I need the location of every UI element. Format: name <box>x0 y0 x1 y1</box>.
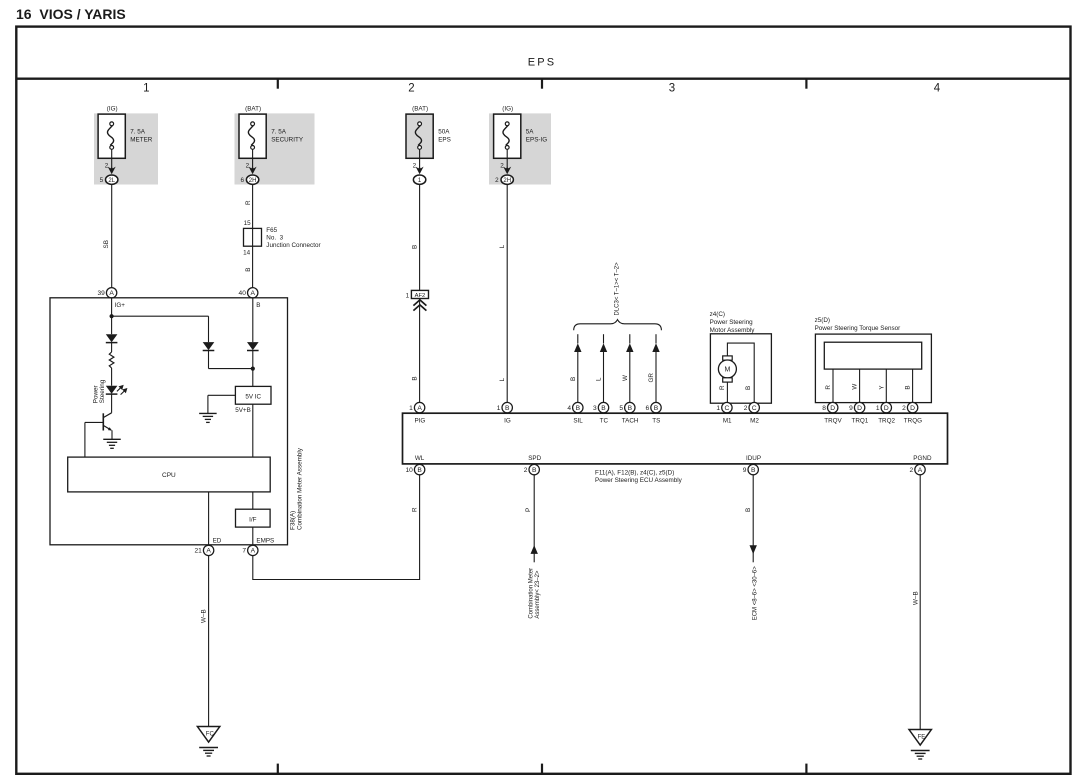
fuse F1 METER: gray highlight panel <box>94 113 158 184</box>
column tick top 2-3 <box>541 79 543 89</box>
wire resistor to LED <box>111 368 113 386</box>
svg-text:14: 14 <box>243 250 251 257</box>
svg-text:Power Steering: Power Steering <box>710 319 754 326</box>
regulator 5V IC box <box>235 386 271 404</box>
svg-text:W–B: W–B <box>200 609 207 623</box>
wire 5V IC to CPU <box>252 404 254 457</box>
arrow up TACH <box>626 343 633 352</box>
svg-text:B: B <box>654 405 659 412</box>
svg-text:R: R <box>411 507 418 512</box>
svg-text:W: W <box>622 375 629 381</box>
svg-text:2L: 2L <box>108 178 115 184</box>
svg-text:WL: WL <box>415 455 425 462</box>
meter pin 39 (A) <box>106 288 116 298</box>
ECU pin 2(C) M2 <box>749 402 759 412</box>
node junction dot 5V <box>251 367 255 371</box>
torque sensor element <box>824 342 921 369</box>
svg-text:I/F: I/F <box>249 516 256 523</box>
column tick bottom 1-2 <box>277 764 279 774</box>
junction connector F65 No.3 <box>244 228 262 246</box>
motor M1 brush <box>723 356 733 360</box>
svg-text:B: B <box>532 467 537 474</box>
wire ED down <box>208 556 210 727</box>
svg-text:5: 5 <box>619 405 623 412</box>
svg-text:8: 8 <box>822 405 826 412</box>
svg-text:A: A <box>918 467 923 474</box>
svg-text:1: 1 <box>876 405 880 412</box>
svg-text:TRQV: TRQV <box>824 418 842 425</box>
fuse F4 EPS-IG: connector arrow <box>503 166 511 174</box>
diode D2 <box>203 342 215 350</box>
svg-text:3: 3 <box>593 405 597 412</box>
svg-text:D: D <box>910 405 915 412</box>
svg-text:B: B <box>905 385 912 389</box>
svg-text:L: L <box>499 244 506 248</box>
wire TACH to pin <box>629 352 631 402</box>
svg-text:2: 2 <box>105 162 109 169</box>
svg-text:GR: GR <box>648 373 655 383</box>
svg-text:PGND: PGND <box>913 455 932 462</box>
svg-text:B: B <box>576 405 581 412</box>
svg-text:39: 39 <box>97 290 105 297</box>
node junction dot IG+ <box>110 314 114 318</box>
transistor Q1 base bar <box>102 413 104 430</box>
svg-text:L: L <box>596 377 603 381</box>
fuse F4 EPS-IG: connector 2H <box>501 175 513 184</box>
svg-text:9: 9 <box>849 405 853 412</box>
svg-text:B: B <box>417 467 422 474</box>
svg-text:1: 1 <box>716 405 720 412</box>
ECU pin 2(D) TRQG <box>907 402 917 412</box>
svg-text:FC: FC <box>206 731 215 737</box>
svg-text:Motor Assembly: Motor Assembly <box>710 327 756 334</box>
svg-text:Power Steering ECU Assembly: Power Steering ECU Assembly <box>595 477 683 484</box>
svg-text:2: 2 <box>500 162 504 169</box>
ground FE <box>909 730 931 746</box>
svg-text:L: L <box>499 377 506 381</box>
wire branch right from IG+ node <box>112 315 209 317</box>
svg-text:9: 9 <box>743 467 747 474</box>
fuse F2 SECURITY: gray highlight panel <box>235 113 315 184</box>
combination meter assembly box <box>50 298 288 545</box>
svg-text:16 VIOS / YARIS: 16 VIOS / YARIS <box>16 6 126 22</box>
wire D2 down <box>208 351 210 369</box>
fuse F2 SECURITY: wire fuse to connector <box>252 149 254 167</box>
wire fuse F4 to IG <box>506 185 508 403</box>
interface I/F box <box>236 509 271 527</box>
svg-text:40: 40 <box>239 290 247 297</box>
fuse F4 EPS-IG: fuse element symbol <box>503 126 509 146</box>
svg-text:B: B <box>245 268 252 272</box>
svg-text:M1: M1 <box>723 418 732 425</box>
fuse F4 EPS-IG: wire fuse to connector <box>506 149 508 167</box>
svg-text:2H: 2H <box>503 178 511 184</box>
in-line connector AF2 <box>411 290 428 298</box>
svg-text:D: D <box>830 405 835 412</box>
fuse F1 METER: fuse element symbol <box>108 126 114 146</box>
svg-text:C: C <box>724 405 729 412</box>
svg-text:(IG): (IG) <box>502 106 513 113</box>
wire PGND down <box>919 475 921 730</box>
wire B down to diode D3 <box>252 298 254 342</box>
svg-text:TRQ2: TRQ2 <box>878 418 895 425</box>
svg-text:W: W <box>852 384 859 390</box>
svg-text:TC: TC <box>600 418 609 425</box>
ECU pin 1(A) PIG <box>414 402 424 412</box>
svg-text:EPS-IG: EPS-IG <box>526 137 547 144</box>
svg-text:B: B <box>570 377 577 381</box>
brace over DLC wires <box>574 320 662 331</box>
ECU pin 8(D) TRQV <box>828 402 838 412</box>
svg-text:B: B <box>751 467 756 474</box>
wire IDUP down <box>752 475 754 563</box>
arrow up TC <box>600 343 607 352</box>
svg-text:10: 10 <box>405 467 413 474</box>
svg-text:TS: TS <box>652 418 660 425</box>
svg-text:5A: 5A <box>526 129 535 136</box>
transistor Q1 collector <box>104 413 112 418</box>
svg-text:R: R <box>719 385 726 390</box>
svg-text:B: B <box>412 376 419 380</box>
svg-text:F11(A), F12(B), z4(C), z5(D): F11(A), F12(B), z4(C), z5(D) <box>595 469 674 476</box>
svg-text:2: 2 <box>902 405 906 412</box>
wire fuse F2 upper segment <box>252 185 254 288</box>
wire WL down <box>419 475 421 580</box>
svg-text:EPS: EPS <box>528 57 557 69</box>
svg-text:A: A <box>417 405 422 412</box>
svg-text:7: 7 <box>242 548 246 555</box>
fuse F4 EPS-IG: gray highlight panel <box>489 113 551 184</box>
wire motor to M1 pin <box>726 382 728 402</box>
header band divider line <box>16 77 1070 79</box>
svg-text:21: 21 <box>194 548 202 555</box>
ECU pin 2(B) SPD <box>529 464 539 474</box>
arrow down IDUP <box>750 545 757 554</box>
wire EMPS down <box>252 556 254 580</box>
wire fuse F3 to AF2 <box>419 185 421 291</box>
wire motor top to M2 pin <box>727 343 754 402</box>
wire CPU to I/F <box>252 492 254 509</box>
power steering ECU assembly box <box>403 413 948 464</box>
LED power steering warning lamp <box>106 386 118 394</box>
svg-text:IDUP: IDUP <box>746 455 761 462</box>
svg-text:B: B <box>505 405 510 412</box>
svg-text:7. 5A: 7. 5A <box>271 129 287 136</box>
svg-text:z5(D): z5(D) <box>815 317 830 324</box>
wire down to IC ground <box>207 395 209 413</box>
arrow up SPD <box>531 545 538 554</box>
svg-text:6: 6 <box>240 177 244 184</box>
LED arrow 1 <box>117 386 123 392</box>
wire CPU to pin 21 <box>208 492 210 545</box>
svg-text:IG: IG <box>504 418 511 425</box>
ECU pin 9(D) TRQ1 <box>854 402 864 412</box>
svg-text:A: A <box>206 548 211 555</box>
wire fuse F1 to meter pin 39 <box>111 185 113 288</box>
LED arrow 2 <box>121 389 127 395</box>
svg-text:SECURITY: SECURITY <box>271 137 304 144</box>
wire stub above arrow TC <box>603 334 605 343</box>
svg-text:Junction Connector: Junction Connector <box>266 242 320 249</box>
svg-text:1: 1 <box>497 405 501 412</box>
wire LED to transistor collector <box>111 395 113 413</box>
ECU pin 3(B) TC <box>598 402 608 412</box>
ground at transistor emitter <box>103 438 121 440</box>
CPU box <box>68 457 271 492</box>
svg-text:A: A <box>109 290 114 297</box>
svg-text:1: 1 <box>406 292 410 299</box>
svg-text:EMPS: EMPS <box>256 538 274 545</box>
svg-text:4: 4 <box>934 83 941 95</box>
svg-text:2: 2 <box>910 467 914 474</box>
wire 5V IC left <box>208 394 236 396</box>
svg-text:SIL: SIL <box>573 418 583 425</box>
ECU pin 1(D) TRQ2 <box>881 402 891 412</box>
svg-text:F65: F65 <box>266 227 277 234</box>
svg-text:2: 2 <box>246 162 250 169</box>
power steering torque sensor box <box>815 334 931 403</box>
wire D1 to resistor <box>111 343 113 352</box>
ground FC <box>197 727 219 743</box>
ECU pin 2(A) PGND <box>915 464 925 474</box>
wire stub above arrow SIL <box>577 334 579 343</box>
svg-text:TRQ1: TRQ1 <box>852 418 869 425</box>
svg-text:R: R <box>245 200 252 205</box>
svg-text:IG+: IG+ <box>115 302 126 309</box>
svg-text:(IG): (IG) <box>107 106 118 113</box>
svg-text:2: 2 <box>524 467 528 474</box>
svg-text:W–B: W–B <box>913 591 920 605</box>
wire emitter to ground <box>111 430 113 439</box>
fuse F3 EPS: connector 1 <box>413 175 425 184</box>
wire SPD down <box>533 475 535 563</box>
svg-text:2: 2 <box>408 83 414 95</box>
svg-text:3: 3 <box>669 83 675 95</box>
wire branch down to diode D2 <box>208 316 210 342</box>
svg-text:B: B <box>601 405 606 412</box>
svg-text:R: R <box>825 385 832 390</box>
svg-text:C: C <box>752 405 757 412</box>
svg-text:Power Steering Torque Sensor: Power Steering Torque Sensor <box>815 325 901 332</box>
wire D3 to node <box>252 351 254 387</box>
wire I/F to pin 7 <box>252 527 254 545</box>
transistor Q1 emitter <box>104 426 112 431</box>
ECU pin 10(B) WL <box>414 464 424 474</box>
motor M circle <box>718 360 736 378</box>
svg-text:B: B <box>256 302 260 309</box>
ECU pin 1(B) IG <box>502 402 512 412</box>
svg-text:TRQG: TRQG <box>904 418 922 425</box>
svg-text:TACH: TACH <box>622 418 639 425</box>
fuse F2 SECURITY: connector 2H <box>246 175 258 184</box>
svg-text:2: 2 <box>744 405 748 412</box>
svg-text:D: D <box>857 405 862 412</box>
wire base left <box>85 421 103 423</box>
svg-text:5V IC: 5V IC <box>245 393 261 400</box>
svg-text:Combination MeterAssembly< 23–: Combination MeterAssembly< 23–2> <box>528 568 541 619</box>
svg-text:PIG: PIG <box>414 418 425 425</box>
fuse F3 EPS: wire fuse to connector <box>419 149 421 167</box>
svg-text:M: M <box>724 367 730 374</box>
svg-text:DLC3< T–1>< T–2>: DLC3< T–1>< T–2> <box>615 262 621 316</box>
fuse F1 METER: connector 2L <box>106 175 118 184</box>
svg-text:A: A <box>250 290 255 297</box>
ECU pin 6(B) TS <box>651 402 661 412</box>
wire sensor TRQ1 <box>859 369 861 402</box>
ECU pin 9(B) IDUP <box>748 464 758 474</box>
svg-text:EPS: EPS <box>438 137 451 144</box>
wire base down to CPU <box>84 422 86 457</box>
svg-text:2: 2 <box>495 177 499 184</box>
svg-text:M2: M2 <box>750 418 759 425</box>
wire sensor TRQ2 <box>885 369 887 402</box>
fuse F3 EPS: connector arrow <box>416 166 424 174</box>
svg-text:5: 5 <box>100 177 104 184</box>
svg-text:B: B <box>628 405 633 412</box>
svg-text:B: B <box>745 508 752 512</box>
svg-text:(BAT): (BAT) <box>245 106 261 113</box>
column tick top 1-2 <box>277 79 279 89</box>
power steering motor assembly box <box>710 334 771 403</box>
svg-text:ECM <8–6> <30–6>: ECM <8–6> <30–6> <box>752 566 758 621</box>
svg-text:ED: ED <box>213 538 222 545</box>
shield chevrons below AF2 <box>413 300 426 311</box>
wire WL to EMPS <box>253 579 420 581</box>
fuse F3 EPS: fuse element symbol <box>415 126 421 146</box>
svg-text:METER: METER <box>130 137 152 144</box>
fuse F1 METER: wire fuse to connector <box>111 149 113 167</box>
svg-text:15: 15 <box>244 220 252 227</box>
ECU pin 5(B) TACH <box>625 402 635 412</box>
svg-text:No. 3: No. 3 <box>266 234 283 241</box>
meter pin 40 (A) <box>248 288 258 298</box>
svg-text:P: P <box>525 508 532 512</box>
fuse F2 SECURITY: fuse element symbol <box>248 126 254 146</box>
svg-text:B: B <box>745 386 752 390</box>
fuse F4 EPS-IG: fuse 5A EPS-IG body <box>494 114 521 158</box>
wire D2 to node <box>209 368 253 370</box>
svg-text:SB: SB <box>103 240 110 248</box>
svg-text:D: D <box>884 405 889 412</box>
wire TS to pin <box>655 352 657 402</box>
meter pin 7 (A) <box>248 545 258 555</box>
ECU pin 1(C) M1 <box>722 402 732 412</box>
svg-text:1: 1 <box>409 405 413 412</box>
wire IG+ down <box>111 298 113 334</box>
svg-text:z4(C): z4(C) <box>710 311 725 318</box>
wire stub above arrow TS <box>655 334 657 343</box>
fuse F2 SECURITY: fuse 7. 5A SECURITY body <box>239 114 266 158</box>
svg-text:6: 6 <box>646 405 650 412</box>
svg-text:FE: FE <box>918 734 926 740</box>
motor M2 brush <box>723 378 733 382</box>
svg-text:B: B <box>412 245 419 249</box>
column tick bottom 3-4 <box>805 764 807 774</box>
svg-text:2: 2 <box>413 162 417 169</box>
svg-text:7. 5A: 7. 5A <box>130 129 146 136</box>
fuse F2 SECURITY: connector arrow <box>249 166 257 174</box>
wire sensor TRQV <box>832 369 834 402</box>
ECU pin 4(B) SIL <box>573 402 583 412</box>
svg-text:2H: 2H <box>249 178 257 184</box>
column tick bottom 2-3 <box>541 764 543 774</box>
wire AF2 to PIG <box>419 299 421 403</box>
diode D1 <box>106 334 118 342</box>
svg-text:5V+B: 5V+B <box>235 407 251 414</box>
column tick top 3-4 <box>805 79 807 89</box>
fuse F3 EPS: fuse 50A EPS body <box>406 114 433 158</box>
resistor R1 <box>109 352 114 368</box>
svg-text:(BAT): (BAT) <box>412 106 428 113</box>
wire stub above arrow TACH <box>629 334 631 343</box>
ground at 5V IC <box>199 412 217 414</box>
fuse F1 METER: connector arrow <box>108 166 116 174</box>
meter pin 21 (A) <box>203 545 213 555</box>
svg-text:A: A <box>251 548 256 555</box>
svg-text:AF2: AF2 <box>415 293 426 299</box>
svg-text:SPD: SPD <box>528 455 541 462</box>
svg-text:50A: 50A <box>438 129 450 136</box>
svg-text:4: 4 <box>567 405 571 412</box>
fuse F1 METER: fuse 7. 5A METER body <box>98 114 125 158</box>
arrow up SIL <box>574 343 581 352</box>
svg-text:CPU: CPU <box>162 472 176 479</box>
arrow up TS <box>652 343 659 352</box>
diode D3 <box>247 342 259 350</box>
svg-text:1: 1 <box>143 83 149 95</box>
wire sensor TRQG <box>912 369 914 402</box>
wire SIL to pin <box>577 352 579 402</box>
wire TC to pin <box>603 352 605 402</box>
